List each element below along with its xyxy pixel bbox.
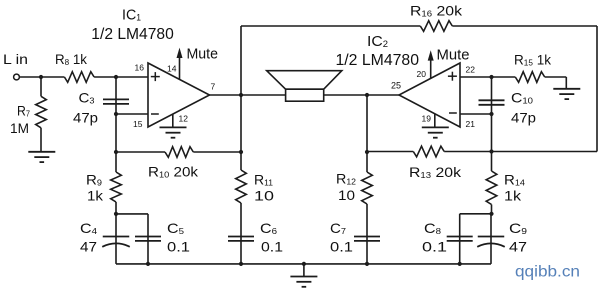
svg-text:1M: 1M	[10, 120, 29, 136]
input terminal L-in	[14, 74, 20, 80]
wire C8 branch down to rail	[459, 214, 461, 264]
wire feedback riser to top rail	[240, 26, 242, 95]
svg-text:0.1: 0.1	[261, 239, 283, 255]
resistor R11	[236, 170, 247, 203]
svg-text:Mute: Mute	[437, 47, 470, 64]
op-amp IC1 minus sign	[151, 113, 159, 115]
svg-text:1/2 LM4780: 1/2 LM4780	[336, 52, 420, 69]
junction C3/inverting input node	[114, 112, 118, 116]
mute arrow IC1	[177, 48, 183, 58]
svg-text:Mute: Mute	[187, 45, 219, 62]
resistor R7	[36, 96, 47, 128]
svg-text:47: 47	[509, 239, 527, 255]
wire R11 bottom lead to rail	[240, 203, 242, 264]
svg-text:R13 20k: R13 20k	[409, 164, 462, 180]
svg-text:10: 10	[254, 188, 274, 204]
svg-text:1/2 LM4780: 1/2 LM4780	[91, 26, 174, 43]
junction speaker/R12 node	[365, 93, 369, 97]
resistor R8	[64, 72, 94, 83]
svg-text:0.1: 0.1	[167, 239, 190, 255]
wire feedback column down	[491, 114, 493, 152]
wire IC2 pin 19 ground stem	[434, 114, 436, 127]
wire R15 ground stem	[565, 77, 567, 89]
junction C7/rail	[365, 262, 369, 266]
wire C5 branch down to rail	[147, 214, 149, 264]
wire C4 branch down to rail	[115, 214, 117, 264]
svg-text:1k: 1k	[87, 188, 104, 204]
wire IC1 output pin 7 to speaker	[210, 94, 286, 96]
capacitor C5	[135, 237, 161, 241]
wire R7 bottom lead to ground	[40, 128, 42, 152]
ground IC2 pin 19	[422, 127, 449, 137]
svg-text:16: 16	[135, 63, 145, 73]
junction ground/rail	[302, 262, 306, 266]
wire R9 bottom lead	[115, 202, 117, 214]
op-amp IC1 triangle	[148, 63, 210, 127]
svg-text:15: 15	[133, 119, 143, 129]
junction R10 right / R11 node	[239, 150, 243, 154]
junction C8/rail	[458, 262, 462, 266]
capacitor C6	[228, 237, 254, 241]
speaker driver body	[286, 89, 324, 101]
wire bottom rail	[116, 263, 491, 265]
resistor R9	[111, 172, 122, 202]
svg-text:7: 7	[211, 82, 216, 92]
svg-text:47p: 47p	[73, 110, 98, 126]
op-amp IC1 plus sign	[151, 72, 160, 81]
op-amp IC2 plus sign	[448, 72, 457, 81]
wire inverting input to IC1 pin 15	[116, 113, 148, 115]
wire R7 top lead	[40, 77, 42, 96]
svg-text:22: 22	[466, 65, 476, 75]
wire IC1 pin 12 ground stem	[172, 114, 174, 127]
resistor R10 20k	[165, 147, 193, 158]
wire branch to C5	[116, 213, 148, 215]
resistor R14	[486, 171, 497, 205]
resistor R16 20k	[420, 21, 452, 32]
svg-text:19: 19	[422, 114, 432, 124]
svg-text:R10 20k: R10 20k	[148, 164, 199, 180]
wire speaker to IC2 output pin 25	[324, 94, 399, 96]
wire IC2 pin 22 to C10 node	[460, 76, 492, 78]
wire C10 lead vertical	[491, 77, 493, 114]
junction C5/rail	[146, 262, 150, 266]
wire input row from L-in terminal to R8	[20, 76, 65, 78]
svg-text:0.1: 0.1	[330, 239, 353, 255]
svg-text:20: 20	[417, 69, 427, 79]
svg-text:R15 1k: R15 1k	[514, 52, 552, 68]
speaker cone	[267, 71, 342, 90]
wire bottom ground stem	[303, 264, 305, 277]
resistor R15	[515, 72, 544, 83]
junction input/R7 node	[39, 75, 43, 79]
capacitor C9	[477, 237, 505, 247]
junction R10 left / R9 top node	[114, 150, 118, 154]
junction R11/rail	[239, 262, 243, 266]
wire R12 bottom lead to rail	[366, 204, 368, 264]
svg-text:21: 21	[466, 119, 476, 129]
wire R10 left lead	[116, 151, 165, 153]
junction C4/C5 split node	[114, 212, 118, 216]
wire C3 lead vertical	[115, 77, 117, 114]
junction C8/C9 split node	[489, 212, 493, 216]
wire C10 node to R15	[492, 76, 516, 78]
wire branch to C8	[460, 213, 492, 215]
junction R8/C3 node	[114, 75, 118, 79]
svg-text:L in: L in	[3, 51, 28, 67]
svg-text:47: 47	[80, 239, 97, 255]
op-amp IC2 minus sign	[449, 112, 457, 114]
capacitor C8	[447, 237, 473, 241]
capacitor C7	[354, 237, 380, 241]
resistor R13 20k	[413, 146, 444, 157]
svg-text:1k: 1k	[504, 188, 522, 204]
wire R9 top lead	[115, 152, 117, 172]
svg-text:25: 25	[391, 81, 401, 91]
wire R12 top lead	[366, 152, 368, 172]
ground IC1 pin 12	[160, 127, 187, 137]
junction IC1 output node	[239, 93, 243, 97]
svg-text:R8 1k: R8 1k	[55, 51, 88, 67]
svg-text:12: 12	[179, 113, 189, 123]
svg-text:R16 20k: R16 20k	[410, 3, 463, 19]
svg-text:0.1: 0.1	[422, 239, 447, 255]
capacitor C10	[479, 100, 505, 105]
wire R11 column from output node	[240, 95, 242, 170]
ground below R15	[553, 89, 580, 99]
capacitor C4	[102, 237, 130, 247]
wire R13 left lead	[367, 151, 413, 153]
svg-text:qqibb.cn: qqibb.cn	[515, 264, 580, 281]
wire R8 to IC1 noninverting input pin 16	[94, 76, 148, 78]
junction R13/R14/feedback node	[489, 149, 493, 153]
wire C9 branch down to rail	[490, 214, 492, 264]
wire IC2 pin 21 to feedback column	[460, 113, 492, 115]
wire R10 right lead	[193, 151, 241, 153]
wire right-edge feedback drop	[596, 26, 598, 152]
wire R12 column riser	[366, 95, 368, 152]
resistor R12	[362, 172, 373, 204]
ground at bottom rail	[290, 277, 317, 287]
wire R14 bottom lead	[491, 205, 493, 214]
svg-text:10: 10	[338, 187, 355, 203]
wire R14 top lead	[491, 152, 493, 172]
wire top feedback rail left of R16	[241, 25, 420, 27]
junction IC2 -input node	[489, 112, 493, 116]
wire IC1 mute pin 14 stem	[179, 58, 181, 80]
mute arrow IC2	[428, 50, 434, 60]
ground below R7	[28, 152, 55, 162]
wire C3 node down to R10 node	[115, 114, 117, 152]
op-amp IC2 triangle	[399, 63, 460, 127]
wire R15 to ground	[545, 76, 567, 78]
wire IC2 mute pin 20 stem	[430, 60, 432, 78]
wire R13 right lead to right edge	[444, 151, 597, 153]
capacitor C3	[103, 99, 129, 104]
junction R13 left / R12 top node	[365, 150, 369, 154]
svg-text:47p: 47p	[511, 110, 536, 126]
wire top feedback rail right of R16	[452, 25, 597, 27]
svg-text:14: 14	[167, 64, 177, 74]
junction IC2 +input node	[489, 75, 493, 79]
